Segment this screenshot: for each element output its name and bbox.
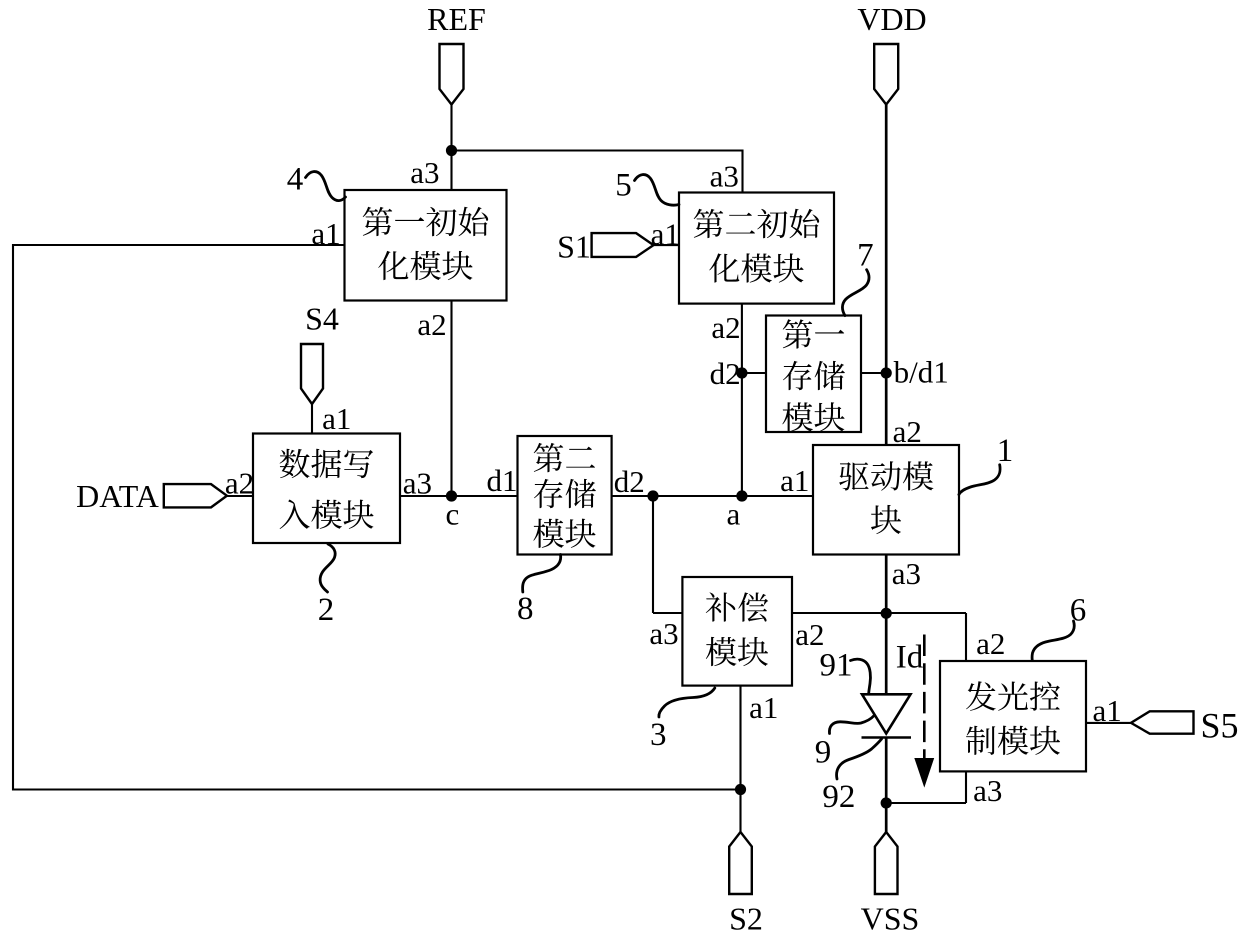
svg-text:6: 6: [1070, 593, 1087, 629]
block U2 data write module: [253, 434, 400, 544]
node U1 a3 junction: [881, 608, 892, 619]
leader 2: [320, 544, 335, 592]
terminal S1 flag: [592, 233, 654, 257]
block U5 second initialization module: [679, 193, 834, 304]
leader 92: [837, 739, 882, 779]
svg-text:a1: a1: [1092, 693, 1121, 728]
wire node to U6 a2: [886, 612, 966, 614]
leader 7: [842, 270, 869, 316]
wire U3 a1 to S2: [739, 686, 741, 832]
svg-text:d1: d1: [487, 463, 518, 498]
svg-text:VSS: VSS: [861, 901, 920, 937]
wire feedback bottom to S2 node: [13, 788, 741, 790]
svg-text:5: 5: [615, 168, 632, 204]
wire node d2 down: [652, 496, 654, 613]
node b/d1: [881, 367, 892, 378]
wire DATA to U2 a2: [226, 495, 253, 497]
node REF junction: [446, 145, 457, 156]
svg-text:REF: REF: [427, 1, 486, 37]
svg-text:a2: a2: [976, 626, 1005, 661]
block U7 first storage module: [766, 316, 861, 433]
svg-text:a1: a1: [322, 401, 351, 436]
svg-text:S1: S1: [557, 229, 591, 265]
node d2 upper junction: [736, 367, 747, 378]
block U4 first initialization module: [345, 190, 507, 301]
leader 4: [306, 172, 346, 201]
current Id dashed arrow: [923, 635, 926, 760]
wire down into U5 a3: [741, 150, 743, 193]
node a: [736, 490, 747, 501]
terminal REF flag: [440, 44, 464, 105]
leader 91: [851, 659, 871, 693]
terminal VDD flag: [874, 44, 898, 105]
svg-text:a2: a2: [225, 466, 254, 501]
svg-text:4: 4: [287, 162, 304, 198]
svg-text:a2: a2: [711, 310, 740, 345]
leader 8: [523, 555, 561, 593]
current Id arrowhead: [915, 759, 934, 787]
node VSS junction: [881, 797, 892, 808]
wire S1 to U5 a1: [653, 244, 679, 246]
OLED D9 triangle: [862, 694, 911, 733]
terminal DATA flag: [164, 484, 227, 507]
svg-text:a2: a2: [893, 414, 922, 449]
wire U8 d2 to U1 a1 through node a: [612, 495, 813, 497]
svg-text:3: 3: [650, 717, 667, 753]
wire VDD to U1 a2: [885, 105, 888, 446]
svg-text:S5: S5: [1200, 706, 1238, 746]
svg-text:91: 91: [820, 648, 853, 684]
svg-text:c: c: [446, 497, 460, 532]
svg-text:9: 9: [815, 735, 832, 771]
svg-text:d2: d2: [710, 356, 741, 391]
block U8 second storage module: [518, 436, 612, 555]
svg-text:a1: a1: [651, 216, 680, 251]
terminal S2 flag: [729, 832, 752, 894]
svg-text:Id: Id: [896, 640, 924, 676]
node c: [446, 490, 457, 501]
wire U6 a3 down: [965, 771, 967, 803]
wire U3 a2 to node: [792, 612, 886, 614]
leader 6: [1032, 621, 1074, 661]
wire REF junction into U4 a3: [450, 151, 452, 191]
svg-text:S2: S2: [729, 901, 763, 937]
node d2 junction: [647, 490, 658, 501]
wire REF stem: [450, 105, 452, 151]
svg-text:a1: a1: [780, 463, 809, 498]
wire U5 a2 down to node a: [741, 304, 743, 496]
node S2 junction: [735, 784, 746, 795]
wire down into U6 a2: [965, 613, 967, 661]
svg-text:a3: a3: [410, 155, 439, 190]
svg-text:a1: a1: [311, 216, 340, 251]
svg-text:VDD: VDD: [857, 1, 926, 37]
svg-text:b/d1: b/d1: [894, 355, 949, 390]
svg-text:a3: a3: [649, 616, 678, 651]
terminal S4 flag: [301, 344, 323, 404]
svg-text:d2: d2: [614, 464, 645, 499]
wire node d2 to U7: [742, 372, 766, 374]
block U1 driving module: [813, 445, 959, 555]
wire U2 a3 to U8 d1: [400, 495, 518, 497]
terminal VSS flag: [875, 832, 898, 894]
wire into U3 a3: [653, 612, 682, 614]
leader 5: [635, 175, 680, 206]
wire S4 to U2 a1: [311, 404, 313, 434]
svg-text:7: 7: [857, 238, 874, 274]
leader 3: [659, 688, 715, 717]
svg-text:8: 8: [517, 591, 534, 627]
svg-text:a1: a1: [749, 690, 778, 725]
wire U4 a1 feedback top: [13, 244, 345, 246]
svg-text:DATA: DATA: [76, 478, 159, 514]
wire U6 a3 to VSS node: [886, 802, 966, 804]
svg-text:a2: a2: [417, 307, 446, 342]
wire OLED cathode to VSS: [885, 738, 888, 833]
wire U7 to node b/d1: [861, 372, 886, 374]
svg-text:a3: a3: [973, 773, 1002, 808]
wire left feedback rail: [12, 244, 14, 791]
svg-text:a3: a3: [892, 556, 921, 591]
svg-text:S4: S4: [305, 301, 339, 337]
wire U1 a3 to OLED anode: [885, 555, 888, 695]
OLED D9 cathode bar: [862, 736, 912, 739]
svg-text:a3: a3: [403, 466, 432, 501]
block U6 emission control module: [940, 661, 1086, 771]
block U3 compensation module: [682, 577, 792, 686]
wire U6 a1 to S5: [1086, 722, 1131, 724]
leader 1: [959, 465, 1000, 495]
leader 9: [829, 716, 873, 734]
wire REF junction to U5 a3: [452, 149, 743, 151]
terminal S5 flag: [1131, 711, 1194, 733]
svg-text:a3: a3: [710, 159, 739, 194]
svg-text:92: 92: [822, 779, 855, 815]
svg-text:2: 2: [318, 592, 335, 628]
svg-text:a: a: [727, 497, 741, 532]
wire U4 a2 down to node c: [450, 301, 452, 497]
